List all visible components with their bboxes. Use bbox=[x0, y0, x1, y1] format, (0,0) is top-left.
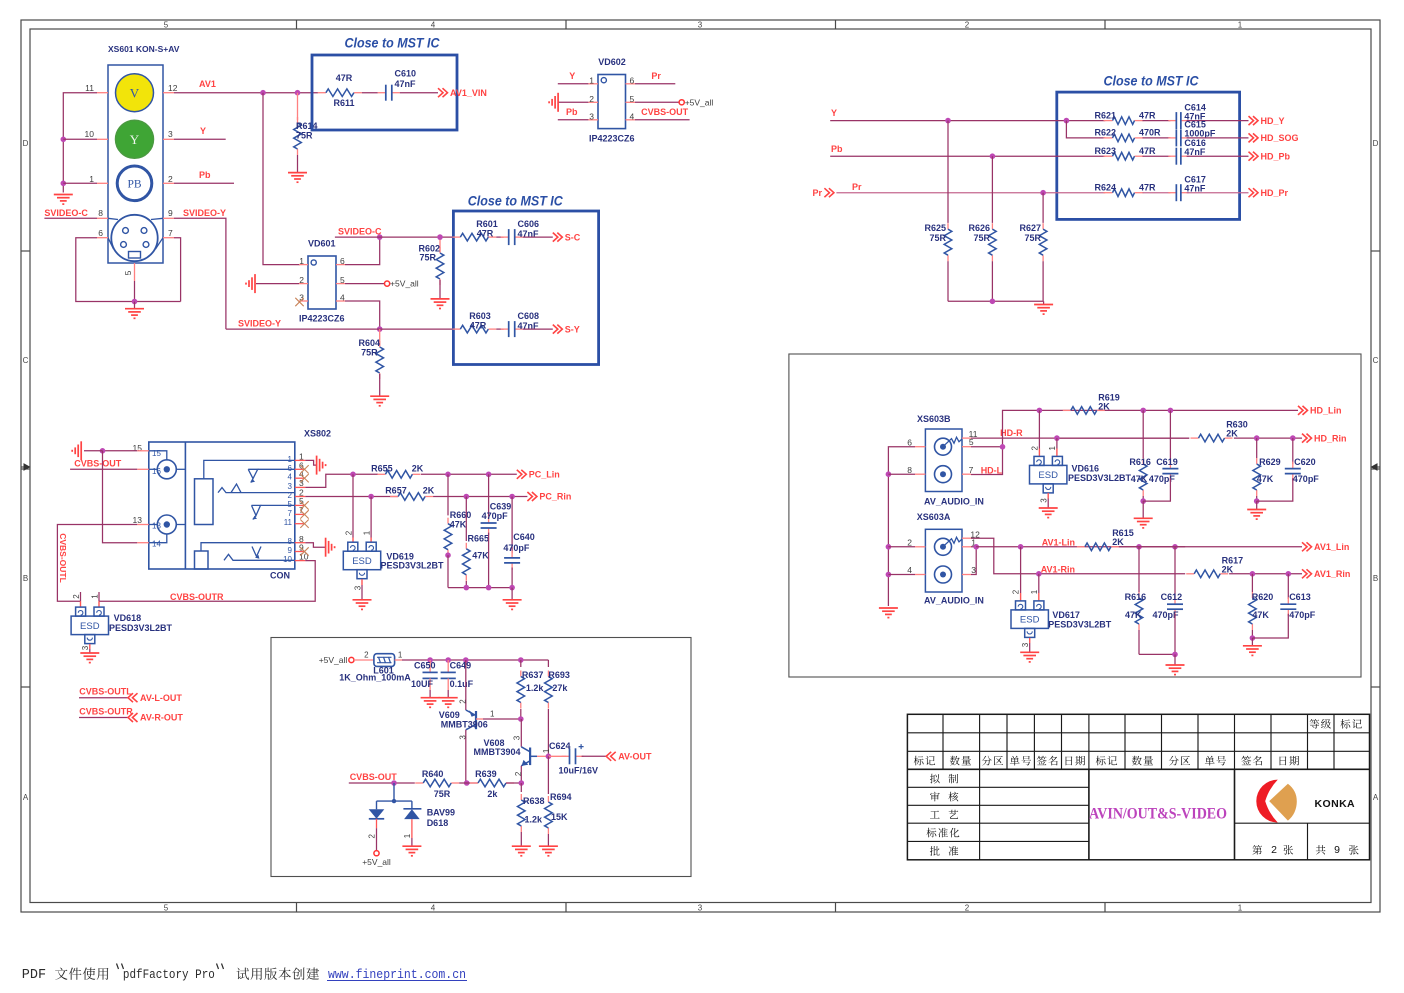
connector XS601 body bbox=[108, 65, 163, 263]
wire C608 to port S-Y bbox=[523, 328, 553, 330]
svg-text:PESD3V3L2BT: PESD3V3L2BT bbox=[381, 560, 445, 570]
wire R639 to V608 bbox=[506, 782, 521, 784]
svg-text:R694: R694 bbox=[550, 792, 572, 802]
resistor R615 bbox=[1077, 546, 1085, 548]
junction HD_Rin VD616 pin1 bbox=[1054, 435, 1060, 441]
svg-text:1: 1 bbox=[490, 710, 495, 719]
svg-text:1: 1 bbox=[398, 651, 403, 660]
ground XS601 left bus bbox=[54, 194, 73, 196]
svg-text:3: 3 bbox=[971, 565, 976, 575]
svg-text:3: 3 bbox=[698, 21, 703, 30]
XS603A pin numbers bbox=[907, 529, 980, 575]
capacitor C613 bbox=[1287, 574, 1289, 599]
svg-text:R624: R624 bbox=[1095, 182, 1117, 192]
svg-text:75R: 75R bbox=[929, 233, 946, 243]
svg-text:2: 2 bbox=[514, 771, 523, 776]
port PC_Rin bbox=[527, 492, 532, 501]
ground C649 bbox=[439, 697, 458, 699]
resistor R621 bbox=[1104, 120, 1113, 122]
title block row labels bbox=[930, 774, 958, 784]
svg-text:8: 8 bbox=[288, 537, 293, 546]
svg-text:1: 1 bbox=[1238, 904, 1243, 913]
resistor R629 vertical bbox=[1256, 438, 1258, 458]
wire pin13 to CVBS-OUTL bbox=[57, 525, 137, 602]
wire YPbPr terminator bus bbox=[948, 300, 1044, 302]
wire SVIDEO-C from pin8 bbox=[44, 217, 97, 219]
title block sheet total bbox=[1316, 845, 1326, 855]
svg-text:R627: R627 bbox=[1019, 223, 1041, 233]
power +5V_all VD601 bbox=[385, 281, 390, 286]
svg-text:12: 12 bbox=[168, 83, 178, 93]
svg-text:CON: CON bbox=[270, 571, 290, 581]
junction V609 base R637 V608 collector bbox=[518, 716, 524, 722]
wire L601 pin1 rail bbox=[395, 659, 402, 661]
XS802 inner rect upper bbox=[195, 479, 214, 525]
svg-text:BAV99: BAV99 bbox=[427, 807, 455, 817]
ground audio bus bbox=[879, 607, 898, 609]
svg-text:47R: 47R bbox=[477, 229, 494, 239]
svg-text:6: 6 bbox=[340, 256, 345, 266]
junction rail V609 bbox=[463, 657, 469, 663]
svg-text:XS603A: XS603A bbox=[917, 512, 951, 522]
inductor L601 bbox=[374, 654, 395, 667]
connector XS603B body bbox=[925, 429, 962, 492]
svg-text:C640: C640 bbox=[513, 532, 535, 542]
XS601 jack Y (green) bbox=[116, 120, 154, 158]
wire C617 to port bbox=[1187, 192, 1249, 194]
svg-text:470pF: 470pF bbox=[1293, 474, 1320, 484]
ic VD602 body bbox=[598, 75, 626, 129]
svg-text:HD_Pr: HD_Pr bbox=[1261, 188, 1289, 198]
junction SVIDEO-Y VD601 bbox=[377, 326, 383, 332]
junction R640 V609 collector bbox=[464, 780, 470, 786]
svg-text:D618: D618 bbox=[427, 818, 449, 828]
note box Close to MST IC (AV1) bbox=[312, 55, 457, 130]
esd VD617 bbox=[1020, 547, 1022, 593]
wire C624 to AV-OUT bbox=[582, 755, 607, 757]
ground R620 bbox=[1251, 638, 1253, 646]
svg-text:47R: 47R bbox=[1139, 182, 1156, 192]
wire VD601 pin4 down to SVIDEO-Y bbox=[345, 301, 380, 329]
svg-text:HD-R: HD-R bbox=[1000, 428, 1023, 438]
svg-text:AV_AUDIO_IN: AV_AUDIO_IN bbox=[924, 596, 984, 606]
svg-text:9: 9 bbox=[168, 208, 173, 218]
svg-text:9: 9 bbox=[1334, 844, 1340, 856]
svg-text:AV1-Rin: AV1-Rin bbox=[1041, 564, 1075, 574]
port AV-OUT bbox=[606, 752, 611, 761]
svg-text:R693: R693 bbox=[548, 670, 570, 680]
resistor R660 vertical bbox=[447, 474, 449, 515]
svg-text:ESD: ESD bbox=[352, 556, 372, 567]
wire XS601 pin7 down bbox=[174, 238, 181, 302]
title block header row labels bbox=[914, 756, 935, 766]
svg-text:13: 13 bbox=[152, 521, 161, 530]
port AV-R-OUT bbox=[128, 713, 133, 722]
svg-text:1: 1 bbox=[403, 833, 412, 838]
XS802 inner pin numbers bbox=[152, 449, 293, 564]
XS802 jack contacts lower bbox=[201, 543, 295, 561]
port HD_Rin bbox=[1302, 434, 1307, 443]
svg-text:47R: 47R bbox=[470, 320, 487, 330]
wire HD_Rin row bbox=[1057, 437, 1189, 439]
port AV1_Rin bbox=[1302, 569, 1307, 578]
svg-text:R623: R623 bbox=[1095, 146, 1117, 156]
wire VD601 pin2 ground bbox=[256, 283, 299, 285]
svg-text:2k: 2k bbox=[487, 789, 498, 799]
svg-text:1: 1 bbox=[589, 76, 594, 86]
svg-text:4: 4 bbox=[907, 565, 912, 575]
no-connect X VD601 pin3 bbox=[295, 298, 303, 306]
junction R657 R665 bbox=[464, 494, 470, 500]
wire AV1_Lin to port bbox=[1119, 546, 1302, 548]
port HD_SOG bbox=[1249, 133, 1254, 142]
svg-text:VD618: VD618 bbox=[114, 613, 142, 623]
esd VD618 bbox=[80, 592, 82, 601]
svg-text:AV1_Lin: AV1_Lin bbox=[1314, 542, 1349, 552]
logo KONKA mark bbox=[1256, 780, 1278, 823]
svg-text:47K: 47K bbox=[1252, 610, 1269, 620]
svg-text:R640: R640 bbox=[422, 769, 444, 779]
VD601 pin numbers bbox=[299, 256, 345, 302]
svg-text:C619: C619 bbox=[1156, 457, 1178, 467]
wire R657 to port bbox=[433, 496, 527, 498]
svg-text:10: 10 bbox=[283, 555, 292, 564]
resistor R611 bbox=[318, 92, 326, 94]
wire PC terminator bus bbox=[448, 587, 512, 589]
wire SVIDEO-Y segment bbox=[226, 328, 453, 330]
wire AV1 down to VD601 pin1 bbox=[263, 93, 300, 265]
ground R614 bbox=[288, 172, 307, 174]
resistor R620 vertical bbox=[1251, 574, 1253, 592]
ground VD602 pin2 (rotated) bbox=[557, 93, 559, 112]
wire AV1 from pin12 bbox=[174, 92, 318, 94]
XS802 rca jack lower bbox=[157, 515, 176, 534]
svg-text:SVIDEO-Y: SVIDEO-Y bbox=[238, 319, 281, 329]
wire C616 to port bbox=[1187, 155, 1249, 157]
wire pin15 down to pin14 bbox=[103, 451, 138, 543]
svg-text:470pF: 470pF bbox=[1149, 474, 1176, 484]
ground XS601 shield bbox=[134, 302, 136, 309]
svg-text:R611: R611 bbox=[333, 98, 354, 108]
XS802 left pin stubs bbox=[137, 451, 305, 561]
junction C612 bottom bbox=[1172, 652, 1178, 658]
svg-text:7: 7 bbox=[168, 228, 173, 238]
svg-text:Pr: Pr bbox=[852, 182, 862, 192]
wire VD601 pin6 up to SVIDEO-C bbox=[345, 237, 380, 265]
svg-text:PC_Lin: PC_Lin bbox=[529, 469, 560, 479]
svg-text:47K: 47K bbox=[472, 550, 489, 560]
port AV-L-OUT bbox=[128, 693, 133, 702]
wire R611 to C610 bbox=[362, 92, 378, 94]
resistor R625 vertical bbox=[947, 121, 949, 223]
svg-text:47nF: 47nF bbox=[1184, 183, 1206, 193]
svg-text:+5V_all: +5V_all bbox=[685, 97, 714, 107]
svg-text:R665: R665 bbox=[468, 533, 490, 543]
junction AV1-Lin VD617 pin2 bbox=[1018, 544, 1024, 550]
wire CVBS-OUT into pin16 bbox=[70, 468, 137, 470]
port AV1_Lin bbox=[1302, 542, 1307, 551]
wire R640 to R639 bbox=[459, 782, 478, 784]
svg-text:4: 4 bbox=[340, 292, 345, 302]
svg-text:PB: PB bbox=[127, 178, 141, 190]
junction pin15 bbox=[100, 448, 106, 454]
junction bus pin8 bbox=[886, 471, 892, 477]
capacitor C639 bbox=[488, 474, 490, 518]
junction bus C640 bbox=[509, 585, 515, 591]
svg-text:47K: 47K bbox=[1125, 610, 1142, 620]
svg-text:HD_Lin: HD_Lin bbox=[1310, 406, 1342, 416]
resistor R601 bbox=[452, 236, 460, 238]
resistor R655 bbox=[377, 473, 385, 475]
wire C615 to port bbox=[1187, 137, 1249, 139]
svg-text:ESD: ESD bbox=[1038, 470, 1058, 481]
svg-text:R638: R638 bbox=[523, 796, 545, 806]
junction AV1_Lin R616b bbox=[1136, 544, 1142, 550]
svg-text:1.2k: 1.2k bbox=[525, 815, 544, 825]
svg-text:1: 1 bbox=[1238, 21, 1243, 30]
svg-text:75R: 75R bbox=[296, 131, 313, 141]
junction bus XS603A pin2 bbox=[886, 544, 892, 550]
ground pin15 (rotated left) bbox=[84, 450, 103, 452]
capacitor C615 bbox=[1143, 137, 1171, 139]
capacitor C619 bbox=[1169, 410, 1171, 464]
svg-text:VD602: VD602 bbox=[598, 57, 626, 67]
esd VD616 bbox=[1038, 410, 1040, 448]
svg-text:pdfFactory Pro: pdfFactory Pro bbox=[123, 968, 215, 982]
svg-text:4: 4 bbox=[431, 904, 436, 913]
svg-text:R622: R622 bbox=[1095, 128, 1117, 138]
junction rail R637 bbox=[518, 657, 524, 663]
svg-text:2: 2 bbox=[168, 174, 173, 184]
svg-text:2: 2 bbox=[1030, 446, 1039, 451]
wire HD-R row bbox=[971, 437, 1189, 439]
svg-text:5: 5 bbox=[340, 275, 345, 285]
XS802 inner rect lower bbox=[195, 551, 209, 569]
VD601 pin stubs bbox=[299, 265, 345, 301]
svg-text:1: 1 bbox=[1048, 446, 1057, 451]
svg-text:PESD3V3L2BT: PESD3V3L2BT bbox=[1068, 473, 1132, 483]
svg-text:3: 3 bbox=[168, 129, 173, 139]
wire SVIDEO-C segment bbox=[335, 236, 453, 238]
svg-text:75R: 75R bbox=[419, 253, 436, 263]
svg-text:2: 2 bbox=[368, 834, 377, 839]
ic VD601 body bbox=[308, 256, 336, 309]
resistor R627 vertical bbox=[1042, 193, 1044, 223]
svg-text:IP4223CZ6: IP4223CZ6 bbox=[589, 133, 635, 143]
svg-text:2: 2 bbox=[288, 491, 293, 500]
svg-text:47R: 47R bbox=[1139, 146, 1156, 156]
svg-text:R616: R616 bbox=[1129, 457, 1151, 467]
capacitor C614 bbox=[1143, 120, 1171, 122]
capacitor C612 bbox=[1174, 547, 1176, 599]
svg-text:+5V_all: +5V_all bbox=[362, 857, 391, 867]
ground pin8 (rotated right) bbox=[325, 538, 327, 557]
V608 emitter down bbox=[520, 766, 522, 783]
svg-text:11: 11 bbox=[85, 83, 94, 93]
svg-text:AV1_Rin: AV1_Rin bbox=[1314, 569, 1350, 579]
svg-text:47R: 47R bbox=[1139, 110, 1156, 120]
ground R602 bbox=[431, 298, 450, 300]
svg-text:5: 5 bbox=[164, 21, 169, 30]
VD618 pin3 ground bbox=[89, 644, 91, 649]
svg-text:2: 2 bbox=[364, 651, 369, 660]
svg-text:47nF: 47nF bbox=[1184, 147, 1206, 157]
svg-text:1: 1 bbox=[89, 174, 94, 184]
svg-text:PDF: PDF bbox=[22, 968, 46, 983]
wire R655 to port bbox=[421, 473, 517, 475]
svg-text:XS601 KON-S+AV: XS601 KON-S+AV bbox=[108, 44, 180, 54]
wire VD602 pin6 Pr bbox=[635, 83, 675, 85]
svg-text:R639: R639 bbox=[475, 769, 497, 779]
svg-text:+5V_all: +5V_all bbox=[390, 279, 419, 289]
svg-text:C624: C624 bbox=[549, 741, 571, 751]
junction CVBS-OUT diode bbox=[391, 780, 397, 786]
svg-text:C649: C649 bbox=[450, 660, 472, 670]
junction bus C639 bbox=[486, 585, 492, 591]
svg-text:VD617: VD617 bbox=[1052, 610, 1080, 620]
svg-text:6: 6 bbox=[630, 76, 635, 86]
svg-text:AV1_VIN: AV1_VIN bbox=[450, 88, 487, 98]
ground C612 bbox=[1174, 654, 1176, 665]
svg-text:V: V bbox=[130, 85, 140, 100]
wire CVBS-OUT row bbox=[349, 782, 415, 784]
svg-text:75R: 75R bbox=[434, 789, 451, 799]
junction pin5 vertical bbox=[1000, 444, 1006, 450]
svg-text:CVBS-OUTR: CVBS-OUTR bbox=[170, 592, 224, 602]
wire Pb from pin2 bbox=[174, 182, 234, 184]
capacitor C624 electrolytic bbox=[548, 755, 566, 757]
junction Y R622 branch bbox=[1064, 118, 1070, 124]
svg-text:10uF/16V: 10uF/16V bbox=[559, 766, 599, 776]
svg-text:2K: 2K bbox=[1226, 429, 1238, 439]
resistor R604 vertical bbox=[379, 341, 381, 347]
resistor R619 bbox=[1063, 409, 1071, 411]
svg-text:HD_Y: HD_Y bbox=[1261, 116, 1285, 126]
resistor R640 bbox=[415, 782, 423, 784]
resistor R623 bbox=[1104, 155, 1113, 157]
svg-text:CVBS-OUTL: CVBS-OUTL bbox=[79, 687, 132, 697]
svg-text:MMBT3906: MMBT3906 bbox=[441, 720, 488, 730]
XS603A jack upper bbox=[935, 538, 952, 555]
svg-text:B: B bbox=[23, 574, 28, 583]
svg-text:Close to MST IC: Close to MST IC bbox=[345, 35, 440, 50]
svg-text:HD-L: HD-L bbox=[981, 466, 1003, 476]
svg-text:4: 4 bbox=[630, 112, 635, 122]
wire pin15 ground bbox=[103, 450, 138, 452]
wire +5V to L601 bbox=[354, 659, 374, 661]
junction bus R665 bbox=[464, 585, 470, 591]
svg-text:C612: C612 bbox=[1161, 592, 1183, 602]
capacitor C649 bbox=[447, 660, 449, 672]
svg-text:5: 5 bbox=[123, 270, 133, 275]
port HD_Y bbox=[1249, 116, 1254, 125]
svg-text:CVBS-OUT: CVBS-OUT bbox=[74, 459, 122, 469]
junction R629 C620 bottom bbox=[1254, 498, 1260, 504]
wire stub AV-L-OUT bbox=[79, 697, 128, 699]
resistor R637 vertical bbox=[520, 660, 522, 667]
svg-text:2: 2 bbox=[458, 699, 467, 704]
junction XS601 pin10 bbox=[61, 137, 67, 143]
esd VD619 bbox=[352, 474, 354, 537]
ground R629 bbox=[1256, 501, 1258, 509]
junction R639 V608 emitter R638 bbox=[519, 780, 525, 786]
svg-text:PC_Rin: PC_Rin bbox=[539, 492, 571, 502]
capacitor C640 bbox=[511, 497, 513, 554]
ground PC bus bbox=[511, 588, 513, 600]
svg-text:R626: R626 bbox=[968, 223, 990, 233]
resistor R603 bbox=[452, 328, 460, 330]
svg-text:27k: 27k bbox=[552, 683, 568, 693]
junction XS601 pin1 bbox=[61, 181, 67, 187]
junction rail C650 bbox=[427, 657, 433, 663]
ground R638 bbox=[512, 845, 531, 847]
svg-text:1: 1 bbox=[1030, 589, 1039, 594]
junction AV1 R614 bbox=[295, 90, 301, 96]
junction HD_Rin C620 bbox=[1290, 435, 1296, 441]
svg-text:CVBS-OUT: CVBS-OUT bbox=[350, 772, 398, 782]
svg-text:3: 3 bbox=[512, 735, 521, 740]
svg-text:2: 2 bbox=[965, 21, 970, 30]
capacitor C650 electrolytic bbox=[429, 660, 431, 672]
svg-text:7: 7 bbox=[969, 465, 974, 475]
svg-text:16: 16 bbox=[152, 467, 161, 476]
V609 base wire bbox=[476, 718, 483, 720]
svg-text:Pb: Pb bbox=[831, 144, 843, 154]
svg-text:A: A bbox=[1373, 793, 1379, 802]
XS603A pin stubs bbox=[915, 538, 971, 574]
svg-text:MMBT3904: MMBT3904 bbox=[473, 747, 520, 757]
ground R604 bbox=[370, 395, 389, 397]
junction V608 base C624 R693 R694 bbox=[546, 754, 552, 760]
junction rail C649 bbox=[445, 657, 451, 663]
capacitor C620 bbox=[1292, 438, 1294, 464]
title block top right labels 等级 标记 bbox=[1310, 719, 1331, 729]
svg-text:Y: Y bbox=[569, 71, 575, 81]
svg-text:AV1-Lin: AV1-Lin bbox=[1042, 537, 1075, 547]
wire Y row bbox=[830, 120, 1105, 122]
diode D618 right (cathode up) bbox=[411, 801, 413, 809]
svg-text:47K: 47K bbox=[1257, 474, 1274, 484]
power +5V_all VD602 bbox=[679, 100, 684, 105]
wire Pr row bbox=[836, 192, 1105, 194]
svg-text:R620: R620 bbox=[1252, 592, 1274, 602]
svg-text:Pr: Pr bbox=[812, 188, 822, 198]
svg-text:5: 5 bbox=[164, 904, 169, 913]
svg-text:4: 4 bbox=[288, 473, 293, 482]
svg-text:3: 3 bbox=[1021, 642, 1030, 647]
capacitor C617 bbox=[1143, 192, 1171, 194]
junction HD_Lin VD616 pin2 bbox=[1037, 408, 1043, 414]
wire R622 branch down bbox=[1066, 121, 1105, 138]
XS601 pin stubs bbox=[97, 93, 174, 281]
svg-text:R621: R621 bbox=[1095, 110, 1117, 120]
junction bus XS603A pin4 bbox=[886, 572, 892, 578]
wire pin10 to CVBS-OUTR bbox=[99, 561, 315, 602]
svg-text:R657: R657 bbox=[385, 485, 407, 495]
XS603B pin stubs bbox=[915, 438, 971, 474]
svg-text:HD_SOG: HD_SOG bbox=[1261, 133, 1299, 143]
resistor R693 vertical bbox=[547, 660, 549, 667]
VD602 pin stubs bbox=[588, 84, 635, 120]
wire XS601 shield bottom bbox=[76, 238, 181, 302]
svg-text:SVIDEO-C: SVIDEO-C bbox=[338, 227, 382, 237]
svg-text:R625: R625 bbox=[924, 223, 946, 233]
svg-text:D: D bbox=[1373, 139, 1379, 148]
junction Pr R627 bbox=[1040, 190, 1046, 196]
svg-text:AV-OUT: AV-OUT bbox=[618, 751, 652, 761]
svg-text:47nF: 47nF bbox=[395, 79, 417, 89]
svg-text:C: C bbox=[23, 356, 29, 365]
